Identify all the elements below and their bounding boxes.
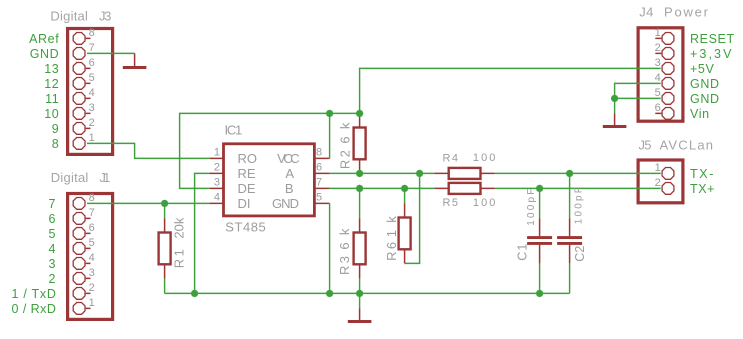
svg-text:1: 1 [89, 132, 95, 144]
svg-text:5: 5 [89, 237, 95, 249]
svg-text:4: 4 [48, 242, 56, 256]
J3 net labels [29, 32, 59, 151]
svg-text:5: 5 [48, 227, 56, 241]
IC1 pin numbers [214, 146, 220, 203]
wire VCC drop [329, 113, 331, 158]
J5 net labels [690, 167, 715, 196]
svg-text:5: 5 [655, 87, 661, 99]
ground near J3 [134, 53, 136, 66]
J4 pin numbers [655, 27, 661, 114]
svg-text:4: 4 [89, 87, 95, 99]
IC1 pin labels [238, 151, 258, 211]
wire R6 loop to A row [405, 173, 420, 263]
J1 pin numbers [89, 192, 95, 309]
svg-text:R4: R4 [443, 153, 459, 165]
svg-text:TX-: TX- [690, 167, 714, 181]
wire +5V from J4 pin3 [180, 68, 661, 188]
svg-text:J1: J1 [99, 170, 110, 185]
svg-text:3: 3 [214, 176, 220, 188]
svg-text:C2: C2 [573, 246, 587, 262]
svg-text:6: 6 [316, 161, 322, 173]
svg-text:Digital: Digital [50, 8, 88, 23]
svg-text:1: 1 [89, 297, 95, 309]
ground bottom center [359, 308, 361, 320]
svg-text:DE: DE [238, 181, 256, 196]
svg-text:TX+: TX+ [690, 182, 715, 196]
svg-text:7: 7 [89, 207, 95, 219]
J3 pin octagons and stubs [73, 32, 85, 149]
svg-text:J4: J4 [639, 4, 653, 19]
svg-text:GND: GND [690, 77, 720, 91]
resistor R2 [359, 113, 361, 173]
svg-text:J3: J3 [99, 8, 111, 23]
J1 net labels [12, 197, 57, 316]
svg-text:20k: 20k [172, 217, 187, 239]
svg-text:1 / TxD: 1 / TxD [12, 287, 57, 301]
wire J1 pin8 to IC DI [87, 202, 210, 204]
svg-text:100: 100 [473, 152, 496, 164]
connector J3 box [68, 29, 113, 155]
wire R1 leads [164, 203, 166, 293]
J5 pin octagons [662, 167, 674, 194]
connector J1 box [68, 194, 113, 320]
J3 pin numbers [89, 27, 95, 144]
svg-text:RO: RO [238, 151, 258, 166]
wire IC GND drop [329, 203, 331, 293]
svg-text:100pF: 100pF [526, 189, 537, 226]
svg-text:IC1: IC1 [225, 123, 243, 138]
wire J4 gnd pins [615, 83, 661, 113]
svg-text:+3,3V: +3,3V [690, 47, 732, 61]
node DI/R1 junction [161, 200, 169, 208]
svg-text:12: 12 [44, 77, 59, 91]
svg-text:6: 6 [89, 222, 95, 234]
svg-text:3: 3 [48, 257, 56, 271]
svg-text:A: A [285, 166, 294, 181]
svg-text:7: 7 [48, 197, 56, 211]
IC1 pin stubs [210, 158, 330, 203]
svg-text:AVCLan: AVCLan [660, 138, 714, 153]
wire gnd rail [165, 292, 570, 294]
svg-text:5: 5 [316, 191, 322, 203]
node A/R2 junction [356, 170, 364, 178]
IC IC1 (ST485 transceiver) box [224, 144, 315, 216]
svg-text:13: 13 [44, 62, 59, 76]
svg-text:2: 2 [214, 161, 220, 173]
svg-text:R3: R3 [337, 256, 352, 275]
svg-text:Digital: Digital [51, 170, 89, 185]
svg-text:C1: C1 [516, 244, 530, 261]
svg-text:+5V: +5V [690, 62, 714, 76]
J1 pin octagons and stubs [73, 197, 85, 314]
wire J3 pin1 to IC RO [87, 143, 210, 158]
svg-text:2: 2 [655, 42, 661, 54]
capacitor C2 [569, 218, 571, 263]
svg-text:7: 7 [316, 176, 322, 188]
svg-text:10: 10 [44, 107, 59, 121]
svg-text:RE: RE [238, 166, 256, 181]
svg-text:GND: GND [690, 92, 720, 106]
wire B row [330, 187, 661, 189]
wire A row [330, 172, 661, 174]
node A/C2 junction [566, 170, 574, 178]
svg-text:2: 2 [89, 282, 95, 294]
svg-text:8: 8 [89, 27, 95, 39]
svg-text:R5: R5 [443, 197, 459, 209]
svg-text:0 / RxD: 0 / RxD [12, 302, 57, 316]
svg-text:B: B [285, 181, 294, 196]
svg-text:3: 3 [89, 267, 95, 279]
node B/C1 junction [536, 185, 544, 193]
resistor R3 [359, 218, 361, 278]
svg-text:2: 2 [655, 177, 661, 189]
svg-text:8: 8 [52, 137, 60, 151]
svg-text:GND: GND [272, 196, 299, 211]
resistor R1 [164, 218, 166, 278]
svg-text:6: 6 [89, 57, 95, 69]
connector J5 box [638, 160, 683, 203]
svg-text:1: 1 [655, 27, 661, 39]
node GND J4 junction [611, 95, 619, 103]
wire C2 leads [569, 173, 571, 293]
svg-text:ARef: ARef [29, 32, 59, 46]
svg-text:4: 4 [214, 191, 220, 203]
svg-text:J5: J5 [639, 138, 652, 153]
svg-text:6k: 6k [337, 228, 352, 250]
node GND/C1 junction [536, 290, 544, 298]
svg-text:11: 11 [45, 92, 59, 106]
svg-text:3: 3 [655, 57, 661, 69]
svg-text:1: 1 [655, 162, 661, 174]
svg-text:9: 9 [52, 122, 60, 136]
svg-text:2: 2 [89, 117, 95, 129]
svg-text:1: 1 [214, 146, 220, 158]
node GND/R3 junction [356, 290, 364, 298]
svg-text:100pF: 100pF [573, 187, 584, 224]
J4 net labels [690, 32, 735, 121]
svg-text:4: 4 [655, 72, 661, 84]
resistor R4 [435, 172, 495, 174]
connector J4 box [638, 28, 683, 121]
node +5V/R2 junction [356, 110, 364, 118]
J4 pin octagons and stubs [662, 32, 674, 119]
resistor R6 [404, 203, 406, 263]
J5 pin numbers [655, 162, 661, 189]
svg-text:Vin: Vin [690, 107, 710, 121]
svg-text:4: 4 [89, 252, 95, 264]
wire RE to gnd rail [195, 173, 210, 293]
svg-text:RESET: RESET [690, 32, 735, 46]
svg-text:6: 6 [655, 102, 661, 114]
node +5V/VCC junction [326, 110, 334, 118]
node A/R6 junction [416, 170, 424, 178]
svg-text:1k: 1k [384, 216, 399, 238]
svg-text:R1: R1 [172, 249, 187, 268]
node B/R3 junction [356, 185, 364, 193]
svg-text:GND: GND [30, 47, 60, 61]
node B/R6 junction [401, 185, 409, 193]
svg-text:R2: R2 [338, 150, 353, 169]
ground near J4 [614, 113, 616, 125]
svg-text:R6: R6 [384, 242, 399, 261]
svg-text:6k: 6k [338, 122, 353, 144]
wire bottom gnd stem [359, 293, 361, 308]
svg-text:Power: Power [664, 4, 709, 19]
svg-text:8: 8 [316, 146, 322, 158]
capacitor C1 [539, 218, 541, 263]
svg-text:8: 8 [89, 192, 95, 204]
svg-text:7: 7 [89, 42, 95, 54]
svg-text:DI: DI [238, 196, 251, 211]
node GND/RE junction [191, 290, 199, 298]
svg-text:2: 2 [48, 272, 56, 286]
svg-text:100: 100 [473, 197, 496, 209]
svg-text:5: 5 [89, 72, 95, 84]
wire R3 leads [359, 188, 361, 293]
resistor R5 [435, 187, 495, 189]
svg-text:VCC: VCC [277, 151, 300, 166]
wire J3 pin7 to ground [87, 52, 135, 54]
wire C1 leads [539, 188, 541, 293]
svg-text:6: 6 [48, 212, 56, 226]
svg-text:ST485: ST485 [225, 220, 265, 235]
svg-text:3: 3 [89, 102, 95, 114]
node GND/IC junction [326, 290, 334, 298]
